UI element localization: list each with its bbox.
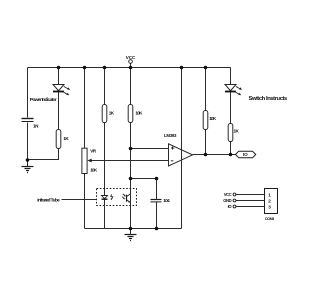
svg-text:LM393: LM393	[164, 133, 177, 138]
svg-text:2: 2	[268, 198, 271, 203]
svg-text:Power Indicator: Power Indicator	[30, 97, 57, 103]
svg-text:1: 1	[268, 192, 271, 197]
svg-text:10K: 10K	[135, 111, 143, 116]
svg-text:IO: IO	[243, 152, 248, 157]
svg-text:Switch Instructs: Switch Instructs	[249, 96, 288, 102]
svg-text:VCC: VCC	[126, 55, 136, 60]
svg-text:104: 104	[163, 198, 170, 203]
svg-text:1K: 1K	[234, 129, 240, 134]
svg-text:GND: GND	[223, 198, 231, 203]
svg-text:3: 3	[268, 204, 271, 209]
svg-text:1K: 1K	[63, 136, 69, 141]
svg-text:10K: 10K	[209, 116, 217, 121]
svg-text:10K: 10K	[90, 167, 98, 172]
svg-text:Infrared Tube: Infrared Tube	[37, 198, 60, 204]
svg-text:CON3: CON3	[265, 216, 275, 221]
svg-text:VR: VR	[90, 149, 97, 154]
svg-text:IO: IO	[228, 204, 233, 209]
svg-text:1N: 1N	[33, 124, 39, 129]
svg-text:1K: 1K	[109, 111, 115, 116]
svg-text:VCC: VCC	[224, 192, 232, 197]
